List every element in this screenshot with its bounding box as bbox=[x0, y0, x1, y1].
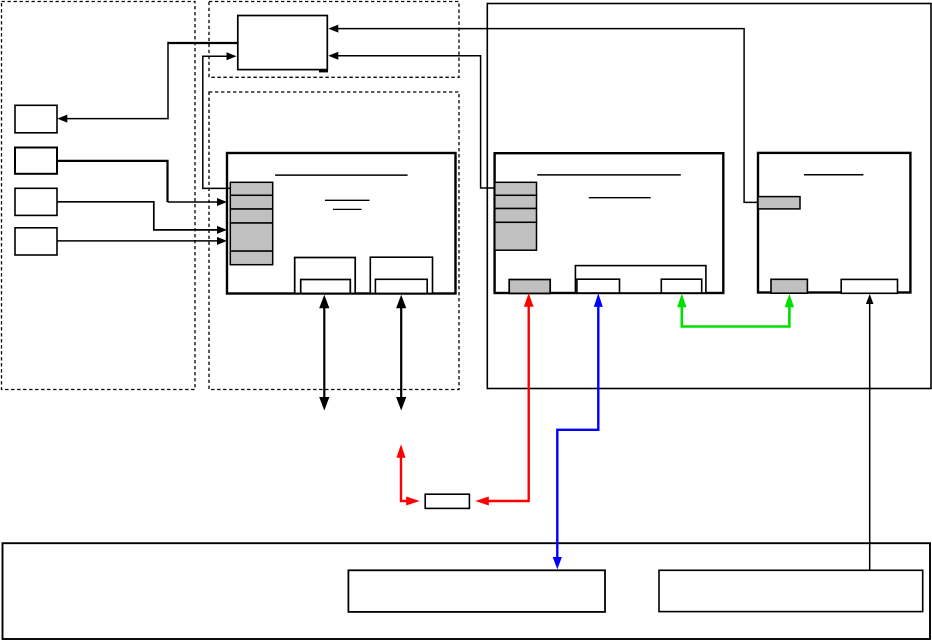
dashed container: middle processor group bbox=[209, 92, 459, 390]
wire BR register up to U0 bbox=[334, 29, 759, 203]
arrowhead into L1 bbox=[57, 115, 67, 123]
wire BM row1 up to U0 bbox=[334, 56, 495, 188]
box L1 bbox=[15, 105, 57, 133]
arrowhead into BL row2 bbox=[217, 198, 227, 206]
double arrow under BL port2 bbox=[396, 295, 406, 411]
block BR gray register bbox=[758, 197, 800, 209]
box SB small register bbox=[425, 494, 469, 508]
wire L4 to BL bbox=[57, 240, 223, 242]
box L2 bbox=[15, 148, 57, 174]
solid container: right subsystem group bbox=[487, 4, 931, 389]
wire BB2 up to BR white port (black) bbox=[869, 303, 871, 570]
blue wire BM port A to BB1 bbox=[557, 305, 598, 558]
wire U0 to node split (thick) bbox=[168, 42, 238, 44]
arrowhead into U0 left bbox=[227, 52, 237, 60]
stub under box U0 bbox=[319, 70, 328, 73]
arrowhead into U0 right upper bbox=[328, 25, 338, 33]
block BL register stack (gray) bbox=[230, 182, 272, 264]
wire L2 to BL (thick segments) bbox=[57, 161, 168, 202]
dashed container: top arbiter group bbox=[209, 2, 459, 78]
block BR: right module body bbox=[758, 153, 910, 293]
red arrowhead right toward SB bbox=[406, 497, 420, 506]
arrowhead into BL row4b bbox=[217, 237, 227, 245]
double arrow under BL port1 bbox=[319, 295, 329, 411]
blue arrowhead up into BM port A bbox=[594, 293, 603, 307]
block BM port frame bbox=[575, 266, 706, 293]
green bracket BM port B to BR gray port bbox=[682, 305, 790, 327]
green arrowhead up into BR gray port bbox=[785, 294, 794, 308]
block BL: left big module body bbox=[227, 153, 456, 294]
block BR white port bbox=[841, 279, 897, 293]
box L3 bbox=[15, 188, 57, 215]
box BB1 bottom-left bus unit bbox=[348, 570, 605, 612]
block BL port 2 bbox=[370, 257, 432, 293]
box L4 bbox=[15, 228, 57, 255]
box BB2 bottom-right bus unit bbox=[659, 570, 923, 611]
box U0 top arbiter bbox=[238, 16, 327, 70]
block BM port A bbox=[577, 279, 620, 293]
wire L2 to BL final bbox=[168, 201, 223, 203]
red elbow wire from SB bbox=[401, 456, 412, 502]
wire drop to L1 bbox=[62, 42, 168, 119]
solid container: bottom bus bbox=[3, 543, 931, 639]
block BM gray port bbox=[509, 280, 550, 294]
red wire BM gray port to SB bbox=[480, 305, 529, 501]
block BR gray port bbox=[771, 279, 807, 293]
arrowhead into BR white port bbox=[866, 294, 874, 304]
wire L3 to BL bbox=[57, 202, 223, 230]
block BM register stack (gray) bbox=[495, 182, 537, 250]
red arrowhead up into BM gray port bbox=[524, 293, 534, 306]
green arrowhead up into BM port B bbox=[677, 294, 686, 308]
blue arrowhead down into BB1 bbox=[553, 557, 562, 569]
wire BL row1 up to U0 bbox=[203, 56, 231, 188]
block BM port B bbox=[661, 279, 701, 293]
red arrowhead left into SB bbox=[475, 497, 489, 506]
red arrowhead up from SB bbox=[397, 444, 406, 458]
dashed container: left I/O group bbox=[2, 2, 196, 390]
arrowhead into U0 right lower bbox=[328, 52, 338, 60]
block BL port 1 bbox=[295, 258, 356, 294]
block BM: middle module body bbox=[495, 153, 724, 293]
arrowhead into BL row4 bbox=[217, 226, 227, 234]
